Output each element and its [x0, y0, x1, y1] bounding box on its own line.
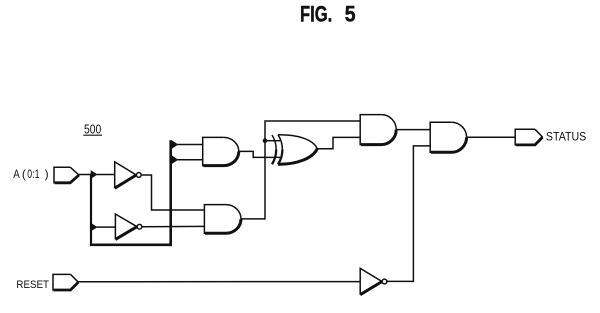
arrow into inverter 2	[91, 223, 98, 232]
svg-text:(: (	[22, 167, 26, 181]
AND gate 1	[203, 137, 224, 165]
wire U1 out to AND2 top input	[141, 175, 204, 210]
AND gate 2	[204, 205, 226, 234]
wire to AND1 top input	[177, 144, 202, 146]
arrow into AND1 top	[172, 140, 179, 149]
wire AND2 out up to corner and over to AND3 top input	[241, 121, 360, 219]
bus A vertical	[90, 174, 92, 245]
arrow into AND1 bottom	[172, 155, 179, 164]
inverter U2	[115, 214, 137, 239]
wire U2 out to AND2 bottom input	[142, 225, 205, 227]
svg-text:RESET: RESET	[16, 279, 49, 291]
AND gate 4	[430, 122, 451, 152]
wire AND3 out to AND4 top input	[396, 129, 430, 131]
XOR gate body	[278, 135, 282, 150]
svg-text:500: 500	[84, 122, 101, 136]
wire to inverter 1	[97, 174, 116, 176]
XOR gate back arc	[272, 135, 276, 150]
wire AND1 out to XOR lower input	[239, 151, 280, 157]
output flag STATUS	[515, 129, 535, 145]
wire A flag to bus	[79, 174, 91, 176]
arrow into inverter 1	[91, 170, 98, 179]
svg-text:A: A	[13, 167, 19, 181]
wire AND4 out to STATUS flag	[467, 136, 516, 138]
wire to inverter 2	[97, 226, 116, 228]
input flag RESET	[53, 274, 71, 290]
wire dot to XOR upper input	[265, 140, 280, 142]
inverter U1	[115, 162, 137, 188]
svg-text:5: 5	[345, 1, 356, 26]
bus vertical to AND1	[169, 140, 172, 246]
svg-text:FIG.: FIG.	[300, 1, 332, 26]
svg-text:STATUS: STATUS	[546, 132, 587, 144]
input flag A	[54, 167, 70, 183]
wire RESET to inverter U3	[78, 281, 360, 283]
AND gate 3	[360, 115, 381, 145]
junction dot	[263, 138, 268, 143]
bus A bottom horizontal	[90, 244, 171, 247]
svg-text:0:1: 0:1	[27, 167, 39, 181]
wire AND4 bottom input down to inverter U3 output	[387, 146, 430, 282]
inverter U3 (RESET)	[360, 268, 382, 294]
wire XOR out to AND3 bottom input	[317, 137, 360, 148]
wire to AND1 bottom input	[177, 159, 202, 161]
svg-text:): )	[45, 167, 49, 181]
